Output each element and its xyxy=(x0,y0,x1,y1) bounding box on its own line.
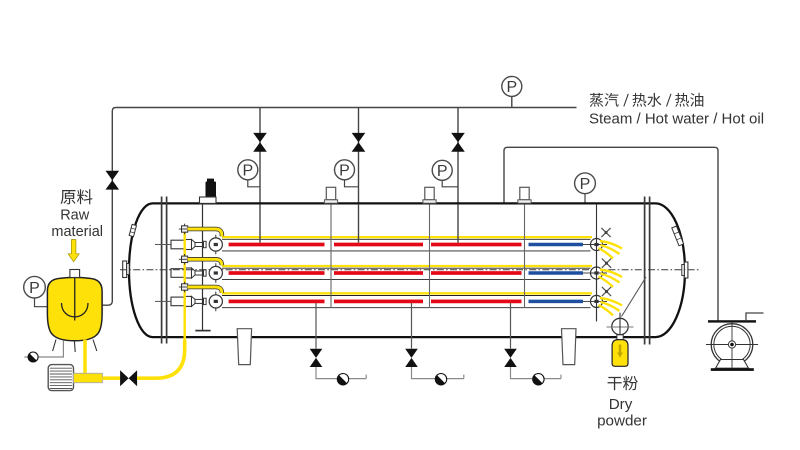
feed arrow into tank xyxy=(68,240,79,262)
svg-text:Steam / Hot water / Hot oil: Steam / Hot water / Hot oil xyxy=(589,110,764,127)
heating element red row 3 xyxy=(229,300,325,304)
feed tank legs xyxy=(53,340,56,352)
rotary joint row 3 right circle xyxy=(591,295,603,307)
vessel right flange xyxy=(644,197,646,345)
dry powder container xyxy=(612,340,628,367)
vessel shell bottom xyxy=(153,336,238,338)
supply hook pipe row 1 xyxy=(188,229,222,236)
wire row 2 stub xyxy=(583,272,591,274)
valve V8 drain xyxy=(504,349,517,358)
pressure gauge P1 xyxy=(238,160,258,180)
agitator shaft foot xyxy=(195,330,210,332)
valve V3 on steam drop 2 xyxy=(352,133,366,142)
left head nozzle xyxy=(123,261,127,278)
heating tube outline row 3 xyxy=(222,295,591,297)
valve V6 drain xyxy=(310,349,323,358)
wire steam drop 1 xyxy=(259,108,261,204)
wire row 1 stub xyxy=(583,244,591,246)
pressure gauge P2 xyxy=(335,160,355,180)
wire right crosshair row 2 xyxy=(591,272,608,274)
wire drain drop 3 xyxy=(510,303,512,349)
wire right crosshair row 3 xyxy=(591,300,608,302)
label dry powder (chinese) xyxy=(608,376,638,391)
cooling element blue row 3 xyxy=(529,300,584,304)
rotary joint row 3 left circle xyxy=(215,292,217,312)
wire tank drain xyxy=(39,341,64,357)
wire discharge column xyxy=(596,205,598,322)
vessel support leg right xyxy=(562,329,577,365)
feed tee fitting row 1 xyxy=(184,224,186,235)
wire gauge P4 stem xyxy=(511,97,513,108)
valve V7 drain xyxy=(405,349,418,358)
wire interior manifold 3 xyxy=(524,205,526,308)
pressure gauge P3 xyxy=(432,160,452,180)
discharge rotary valve xyxy=(612,318,628,334)
svg-text:P: P xyxy=(29,280,40,297)
wire drain drop 2 xyxy=(411,303,413,349)
rotary joint row 2 left shaft xyxy=(171,269,185,278)
spray jets row 3 xyxy=(600,298,622,306)
feed tank vessel xyxy=(47,277,102,340)
vacuum pump pedestal xyxy=(716,360,749,369)
label steam/hot water/hot oil (chinese) xyxy=(590,93,704,107)
svg-text:powder: powder xyxy=(597,413,647,430)
label raw material (chinese) xyxy=(61,189,93,204)
wire right crosshair row 1 xyxy=(591,244,608,246)
wire yellow feed riser xyxy=(137,340,185,378)
wire vacuum line loop xyxy=(504,147,718,321)
nozzle mark row 1 xyxy=(601,228,610,237)
vacuum pump crosshair xyxy=(706,344,758,346)
wire steam manifold header xyxy=(102,108,577,306)
rotary joint row 2 right circle xyxy=(591,267,603,279)
shell top nozzle 2 xyxy=(425,187,434,200)
rotary joint row 1 right circle xyxy=(591,239,603,251)
feed tank agitator paddle xyxy=(62,303,89,317)
wire steam drop 3 interior xyxy=(457,205,459,243)
rotary joint row 3 left shaft xyxy=(155,300,171,302)
wire drain tail 3 xyxy=(511,367,533,379)
heating element red row 2 xyxy=(229,271,325,275)
wire gauge P2 connector xyxy=(345,180,359,187)
heating tube outline row 2 xyxy=(222,267,591,269)
right head nozzle xyxy=(684,262,688,278)
svg-text:Dry: Dry xyxy=(609,396,633,413)
vessel left flange xyxy=(161,197,163,344)
vessel axis centreline xyxy=(120,269,700,271)
svg-text:P: P xyxy=(580,176,591,193)
wire steam drop 2 interior xyxy=(358,205,360,243)
instrument T1 on drain xyxy=(337,374,348,385)
wire row 3 stub xyxy=(583,300,591,302)
vacuum pump casing xyxy=(711,324,753,366)
rotary joint row 1 left circle xyxy=(215,235,217,255)
nozzle mark row 3 xyxy=(602,287,611,296)
wire yellow feed suction xyxy=(102,376,120,380)
wire interior manifold 2 xyxy=(429,205,431,308)
svg-text:Raw: Raw xyxy=(60,208,90,224)
pressure gauge P4 on header xyxy=(502,76,522,96)
rotary joint row 2 left circle xyxy=(215,263,217,283)
supply pipe yellow row 1 xyxy=(222,236,592,238)
vacuum pump base xyxy=(711,368,754,371)
pressure gauge P5 on vessel top xyxy=(575,173,596,194)
wire gauge P1 connector xyxy=(248,180,260,187)
vacuum pump top plate xyxy=(708,320,756,322)
shell top nozzle 3 xyxy=(520,187,529,200)
agitator motor M1 xyxy=(207,179,214,182)
rotary joint row 1 left shaft xyxy=(155,244,171,246)
wire drain tail 1 xyxy=(316,367,337,379)
vessel right head xyxy=(656,203,686,337)
agitator motor base xyxy=(200,197,217,203)
right head sight pad xyxy=(672,226,684,246)
instrument T0 on tank drain xyxy=(28,352,38,362)
wire discharge valve stem xyxy=(619,313,621,339)
svg-text:P: P xyxy=(437,163,448,180)
svg-text:material: material xyxy=(51,224,103,240)
svg-text:P: P xyxy=(506,79,517,96)
pressure gauge P6 on feed tank xyxy=(24,276,46,298)
wire yellow tank outlet xyxy=(83,340,87,375)
wire discharge column overlay xyxy=(596,236,598,321)
spray jets row 2 xyxy=(600,270,622,278)
heating tube outline row 1 xyxy=(222,238,591,240)
instrument T3 on drain xyxy=(533,374,544,385)
cooling element blue row 2 xyxy=(529,271,584,275)
instrument T2 on drain xyxy=(435,374,446,385)
wire steam drop 2 xyxy=(358,108,360,204)
feed pump motor xyxy=(48,365,73,391)
supply pipe yellow row 2 xyxy=(222,265,592,267)
leader line to discharge valve xyxy=(622,277,647,317)
valve V5 feed xyxy=(120,370,129,386)
vacuum pump inlet pipe xyxy=(746,313,764,320)
wire steam drop 1 interior xyxy=(259,205,261,243)
feed tank agitator shaft xyxy=(74,278,76,321)
feed tee fitting row 2 xyxy=(184,254,186,265)
supply hook pipe row 2 xyxy=(188,259,222,265)
valve V2 on steam drop 1 xyxy=(253,133,267,142)
vessel support leg left xyxy=(237,329,251,365)
vacuum pump hub xyxy=(728,341,735,348)
discharge valve neck xyxy=(617,335,623,340)
vessel shell top xyxy=(153,202,656,204)
wire drain tail 2 xyxy=(412,367,436,379)
left head sight pad xyxy=(129,224,136,236)
agitator shaft xyxy=(202,203,204,330)
vessel left head xyxy=(129,203,153,337)
wire drain drop 1 xyxy=(315,303,317,349)
cooling element blue row 1 xyxy=(529,243,584,247)
wire interior manifold 1 xyxy=(330,205,332,308)
feed pump casing xyxy=(74,373,103,382)
wire gauge P5 stem xyxy=(584,194,586,204)
feed tank nozzle xyxy=(70,270,80,278)
svg-text:P: P xyxy=(339,162,350,179)
valve V4 on steam drop 3 xyxy=(451,133,465,142)
svg-text:P: P xyxy=(242,162,253,179)
wire steam drop 3 xyxy=(457,108,459,204)
valve V1 on left vent riser xyxy=(106,171,120,180)
feed tee fitting row 3 xyxy=(184,282,186,293)
wire gauge P3 connector xyxy=(442,180,458,187)
nozzle mark row 2 xyxy=(602,259,611,268)
heating element red row 1 xyxy=(229,243,325,247)
supply pipe yellow row 3 xyxy=(222,292,592,294)
shell top nozzle 1 xyxy=(326,187,335,200)
supply hook pipe row 3 xyxy=(188,287,222,293)
spray jets row 1 xyxy=(600,241,622,249)
wire gauge P6 connector xyxy=(35,298,48,307)
dry powder arrow xyxy=(617,345,623,358)
